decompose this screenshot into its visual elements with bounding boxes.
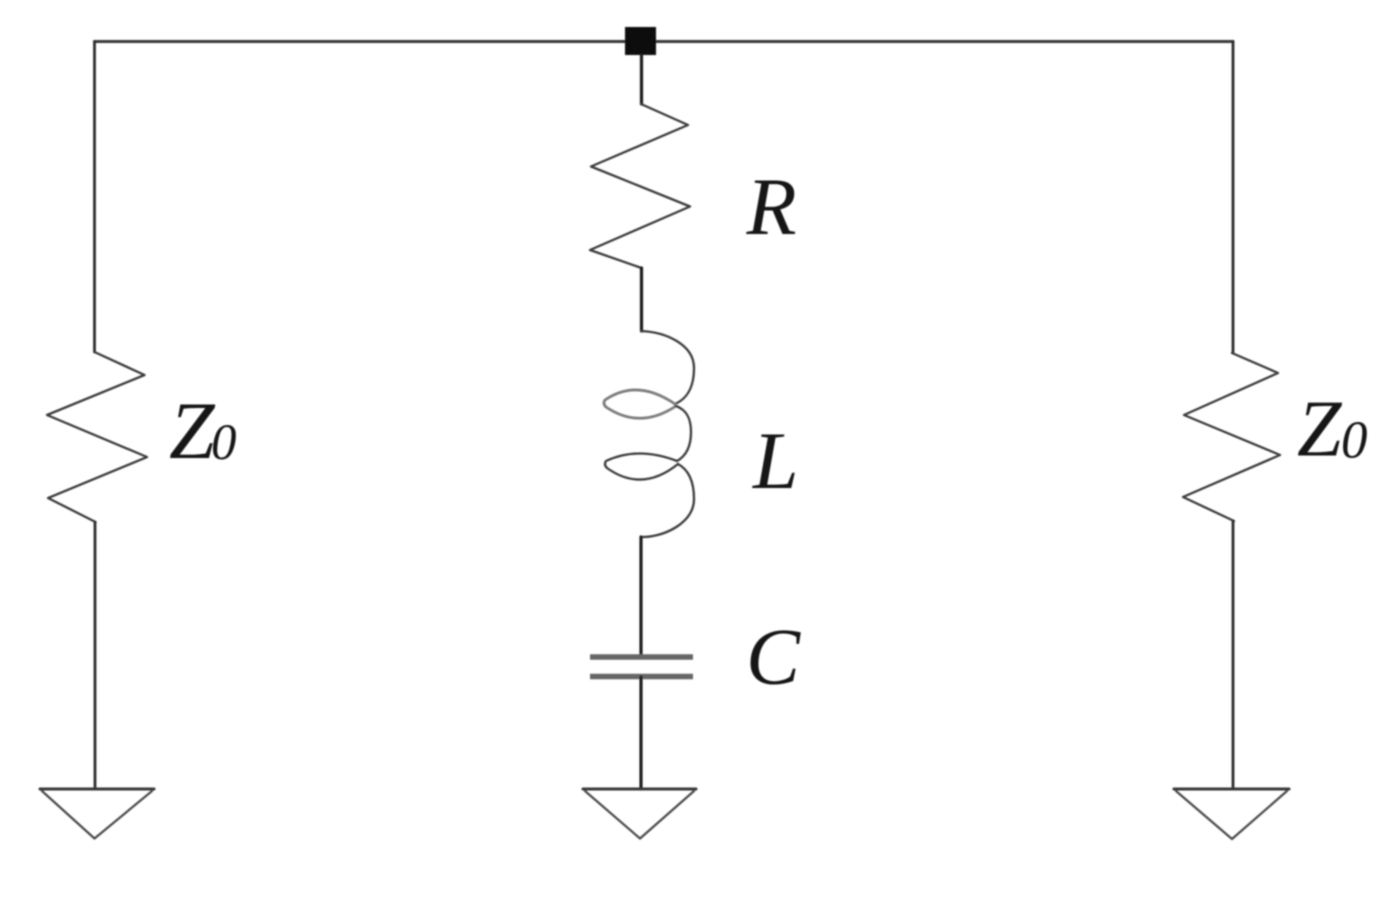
wire R to L (640, 268, 643, 331)
label Z0 (left) (169, 385, 237, 476)
svg-text:Z: Z (1297, 386, 1343, 474)
svg-text:L: L (752, 415, 799, 506)
node junction (filled square) (625, 27, 656, 55)
label Z0 (right) (1297, 386, 1368, 474)
svg-text:0: 0 (211, 415, 237, 471)
ground (middle) (583, 789, 696, 839)
ground (left) (40, 789, 154, 839)
capacitor C (590, 657, 693, 677)
wire top horizontal bus (95, 40, 1234, 43)
wire left vertical drop (93, 42, 96, 353)
svg-text:Z: Z (169, 385, 216, 476)
svg-text:R: R (746, 161, 797, 252)
svg-text:C: C (746, 612, 801, 702)
wire stub below node (640, 55, 643, 104)
ground (right) (1174, 789, 1289, 839)
wire right vertical drop (1232, 42, 1235, 354)
wire L to C (639, 537, 642, 656)
resistor Z0 (right) (1183, 353, 1280, 521)
resistor Z0 (left) (47, 352, 147, 522)
inductor L (604, 331, 694, 537)
wire right lower (1232, 521, 1235, 789)
wire left lower (94, 522, 97, 789)
wire C to ground (639, 677, 642, 789)
svg-text:0: 0 (1341, 412, 1368, 470)
resistor R (590, 104, 690, 268)
